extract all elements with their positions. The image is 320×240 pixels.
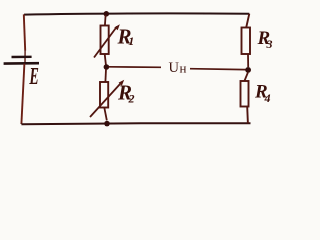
wire to Uн (left segment) — [109, 66, 161, 69]
svg-text:E: E — [29, 64, 39, 90]
node mid-left junction — [104, 64, 110, 70]
wire right lower — [246, 107, 249, 124]
wire — [247, 54, 249, 67]
svg-text:1: 1 — [128, 34, 134, 48]
node right junction — [245, 67, 251, 73]
svg-text:U: U — [169, 60, 180, 76]
wire left lower — [21, 64, 24, 124]
wire — [244, 73, 248, 82]
battery E — [4, 50, 39, 64]
svg-text:2: 2 — [128, 92, 135, 106]
resistor R3 — [242, 28, 251, 55]
wire — [105, 54, 106, 65]
svg-text:3: 3 — [266, 37, 273, 51]
wire left upper — [24, 14, 25, 50]
resistor R4 — [241, 81, 249, 107]
wire — [104, 15, 107, 26]
wire top — [24, 13, 249, 14]
wire from Uн to right branch — [190, 68, 246, 71]
node bottom junction — [104, 121, 110, 127]
svg-text:н: н — [180, 60, 187, 75]
resistor R2 (variable) — [90, 80, 124, 117]
wire bottom — [21, 123, 250, 124]
resistor R1 (variable) — [94, 24, 120, 57]
wire right upper — [246, 14, 249, 28]
wire — [104, 108, 107, 121]
svg-text:4: 4 — [264, 91, 271, 105]
node top junction — [104, 11, 110, 17]
wire — [104, 69, 107, 82]
